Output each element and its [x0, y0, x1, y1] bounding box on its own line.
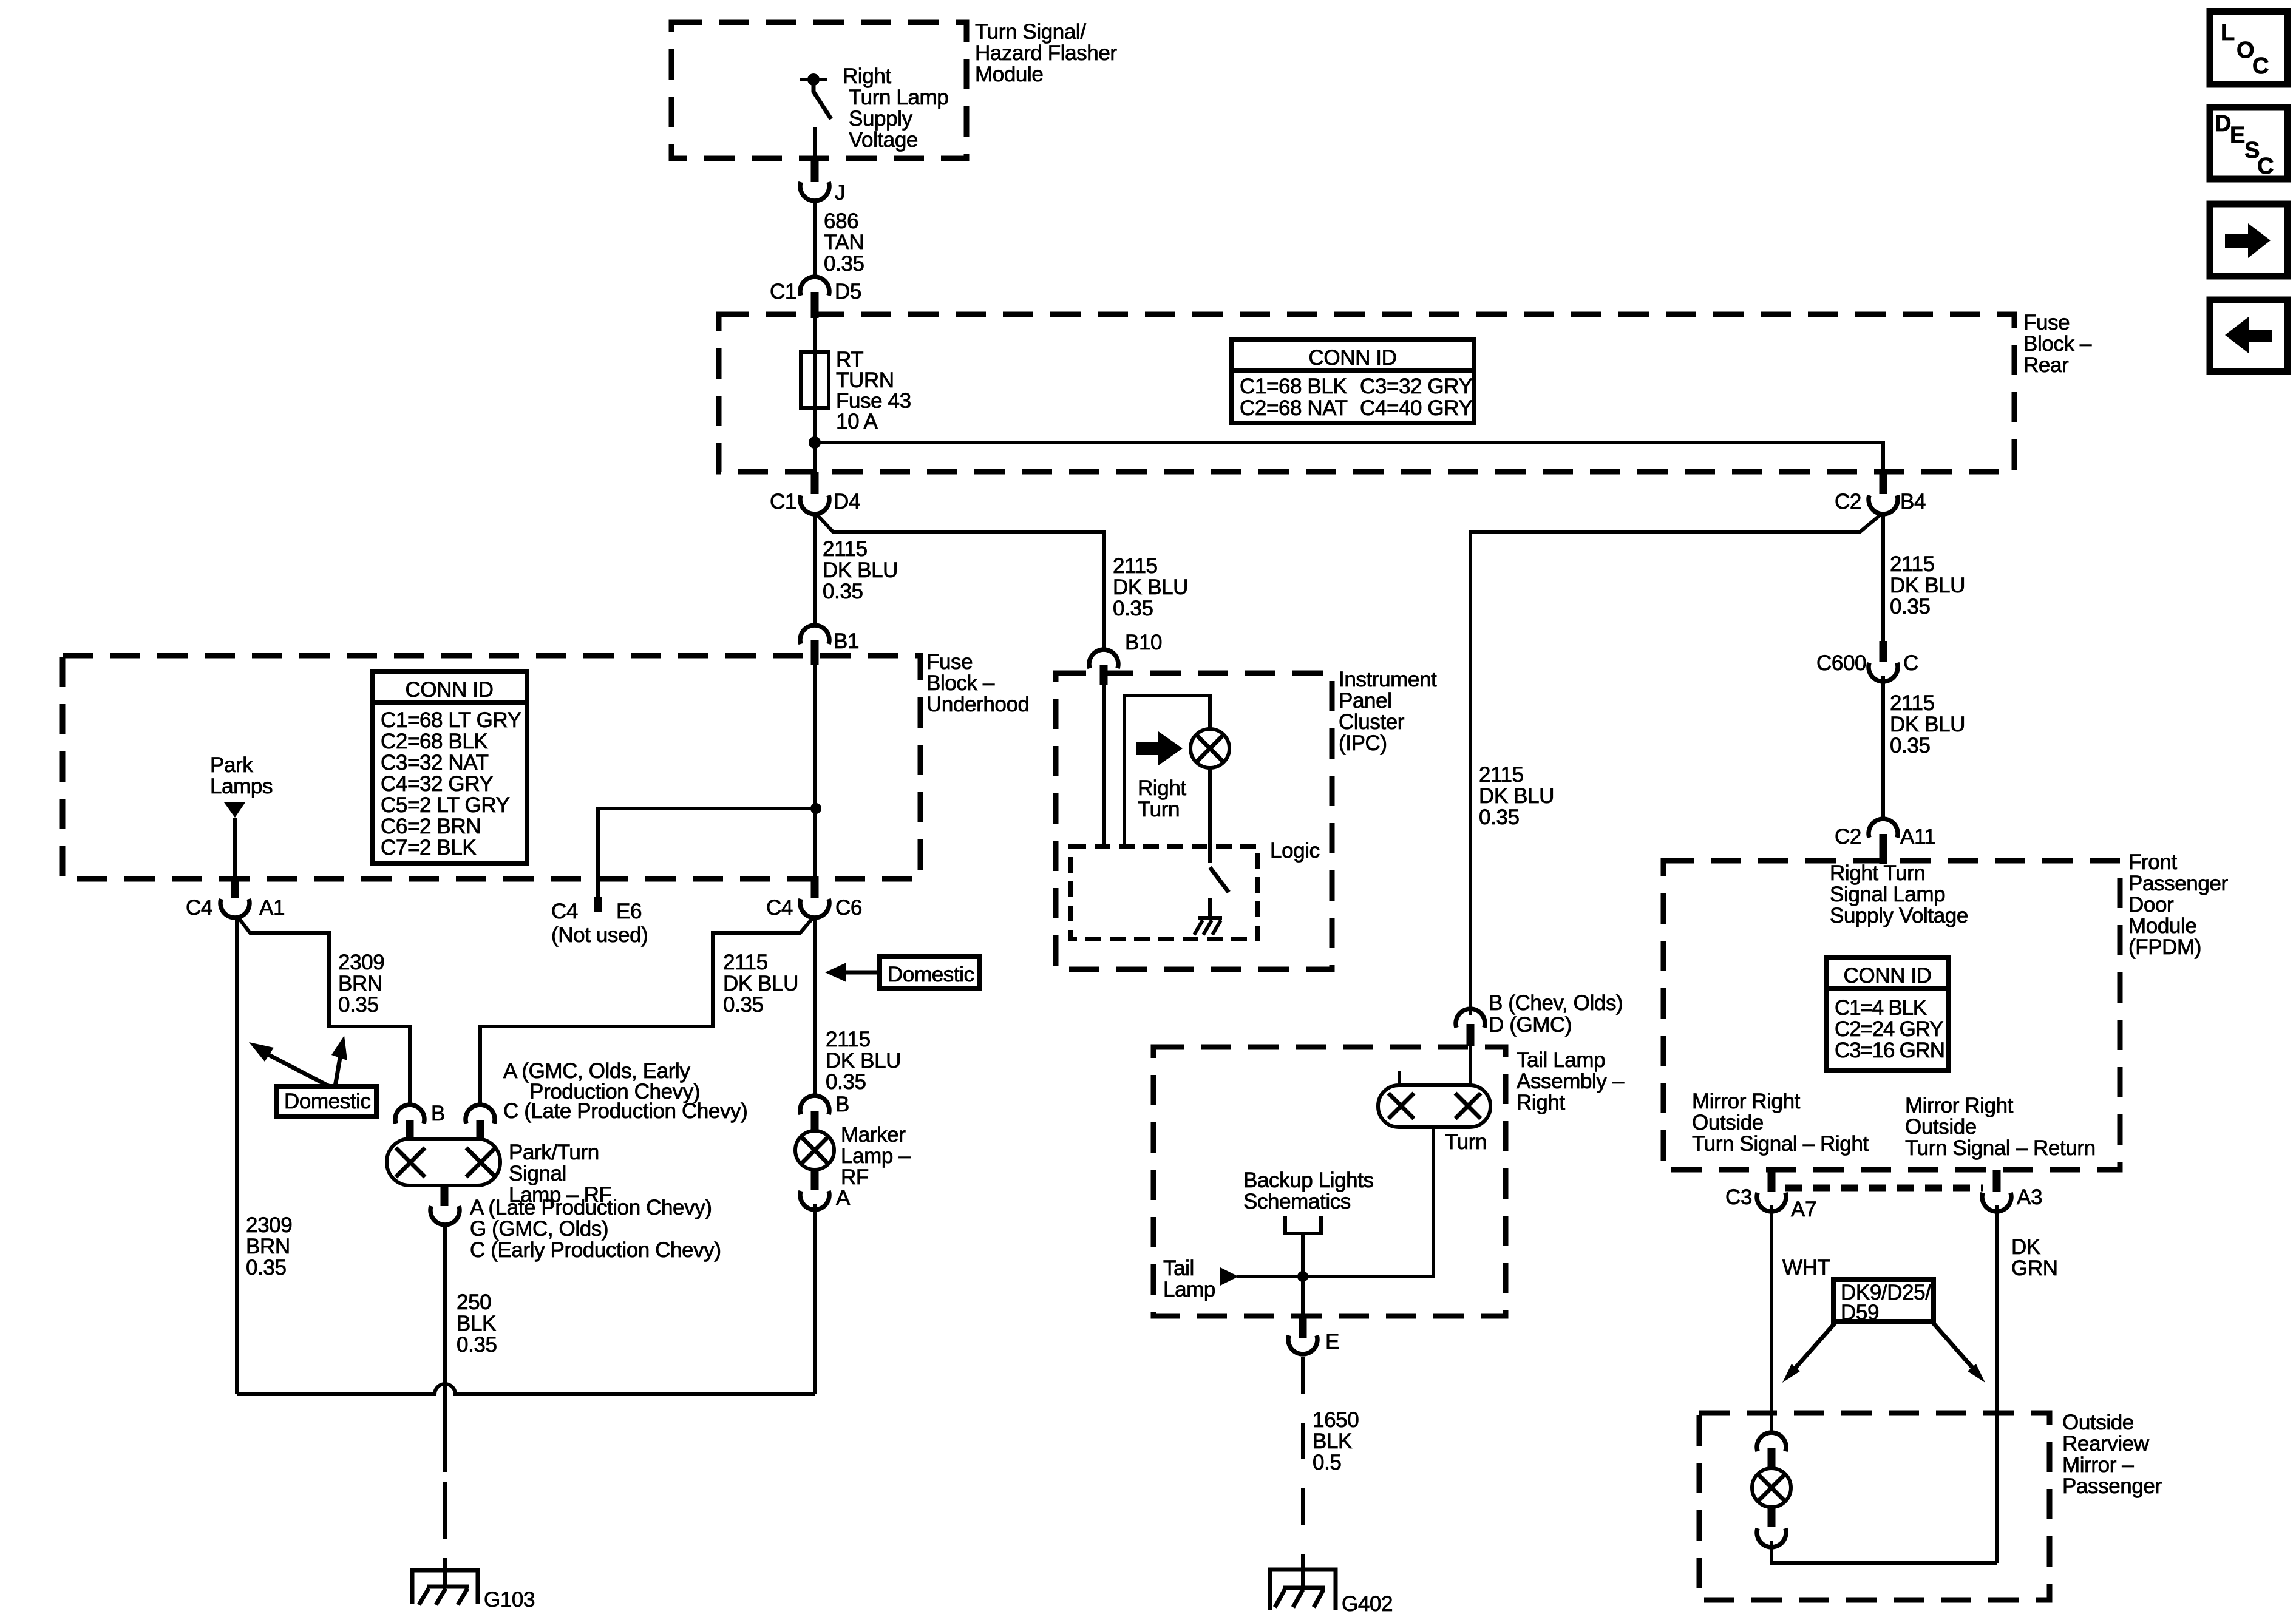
wire: C2 B4 to tail-lamp branch: [1470, 514, 1882, 1015]
connector C4 A1: [186, 876, 285, 920]
wire: branch to IPC B10: [816, 514, 1188, 650]
svg-text:Right Turn: Right Turn: [1830, 861, 1925, 885]
svg-text:Park: Park: [210, 753, 253, 777]
svg-text:GRN: GRN: [2011, 1256, 2058, 1280]
wire: connector face dashes: [1785, 1185, 1983, 1192]
svg-text:Turn Signal/: Turn Signal/: [975, 20, 1086, 44]
svg-text:Turn: Turn: [1445, 1130, 1487, 1154]
svg-text:A11: A11: [1900, 825, 1935, 849]
svg-text:C1: C1: [770, 280, 796, 303]
module box: Turn Signal / Hazard Flasher Module: [671, 20, 1117, 158]
svg-text:G (GMC, Olds): G (GMC, Olds): [470, 1217, 608, 1241]
svg-text:C1=4 BLK: C1=4 BLK: [1835, 996, 1927, 1020]
svg-text:0.35: 0.35: [1479, 805, 1520, 829]
svg-text:C2: C2: [1835, 490, 1861, 514]
pin label: Right Turn Signal Lamp Supply Voltage: [1830, 861, 1968, 927]
svg-text:DK BLU: DK BLU: [1113, 575, 1188, 599]
callout: Domestic (left): [249, 1036, 376, 1116]
svg-text:C1=68 LT GRY: C1=68 LT GRY: [381, 708, 521, 732]
svg-text:C4=40 GRY: C4=40 GRY: [1360, 396, 1473, 420]
svg-text:2115: 2115: [1479, 763, 1524, 787]
svg-text:Outside: Outside: [1692, 1111, 1764, 1134]
connector C600 C: [1816, 641, 1918, 682]
svg-text:Fuse: Fuse: [2023, 311, 2070, 334]
node: Tail Lamp feed: [1163, 1256, 1238, 1301]
svg-text:C1: C1: [770, 490, 796, 514]
connector C2 A11: [1835, 819, 1935, 864]
box: Logic: [1070, 839, 1320, 939]
svg-text:2115: 2115: [723, 951, 768, 974]
icon: LOC button: [2210, 12, 2288, 84]
wire WHT: [1771, 1205, 1830, 1433]
callout: DK9/D25/D59: [1782, 1280, 1985, 1383]
wire 2115 DK BLU 0.35 (C600 to FPDM): [1883, 676, 1965, 819]
ground (IPC internal): [1194, 898, 1222, 935]
svg-text:Turn Signal – Right: Turn Signal – Right: [1692, 1132, 1869, 1156]
switch: Right Turn Lamp Supply Voltage: [800, 64, 948, 152]
svg-text:E: E: [1325, 1330, 1339, 1354]
wire: through fuse: [813, 318, 817, 474]
connector C1 D5: [770, 277, 861, 318]
svg-text:2309: 2309: [246, 1213, 292, 1237]
svg-text:250: 250: [457, 1290, 491, 1314]
svg-text:Voltage: Voltage: [849, 128, 918, 152]
icon: back arrow button: [2210, 300, 2288, 371]
svg-text:Turn Signal – Return: Turn Signal – Return: [1905, 1136, 2096, 1160]
svg-text:Backup Lights: Backup Lights: [1243, 1168, 1374, 1192]
lamp: mirror turn signal bulb: [1752, 1468, 1791, 1507]
svg-text:D5: D5: [835, 280, 861, 303]
svg-text:0.35: 0.35: [824, 252, 864, 276]
svg-text:Rear: Rear: [2023, 353, 2069, 377]
connector B10: [1089, 631, 1162, 685]
svg-text:Module: Module: [2128, 914, 2196, 938]
pin label: Mirror Right Outside Turn Signal - Return: [1905, 1094, 2096, 1160]
connector B (park/turn lamp): [395, 1102, 445, 1140]
svg-text:0.35: 0.35: [1113, 597, 1153, 620]
connector B (marker lamp): [800, 1093, 849, 1131]
svg-text:2115: 2115: [1890, 552, 1935, 576]
connector (mirror bulb bottom): [1757, 1507, 1786, 1547]
svg-text:0.35: 0.35: [338, 993, 379, 1017]
connector C1 D4: [770, 472, 860, 514]
connector B/D (tail lamp): [1456, 991, 1623, 1046]
svg-text:C600: C600: [1816, 651, 1866, 675]
svg-text:Signal Lamp: Signal Lamp: [1830, 883, 1945, 906]
svg-text:C2=68 NAT: C2=68 NAT: [1240, 396, 1348, 420]
svg-text:CONN ID: CONN ID: [1309, 346, 1397, 370]
svg-text:Signal: Signal: [509, 1162, 566, 1185]
wire 2115 DK BLU 0.35 (to tail lamp): [1479, 763, 1554, 829]
svg-text:2309: 2309: [338, 951, 384, 974]
svg-text:C (Late Production Chevy): C (Late Production Chevy): [503, 1099, 747, 1123]
connector E: [1288, 1316, 1339, 1354]
svg-text:686: 686: [824, 209, 858, 233]
connector C4 C6: [766, 876, 862, 920]
svg-text:A: A: [836, 1186, 851, 1210]
svg-text:C2=24 GRY: C2=24 GRY: [1835, 1017, 1943, 1041]
svg-text:C3=32 GRY: C3=32 GRY: [1360, 375, 1473, 398]
svg-text:(IPC): (IPC): [1339, 731, 1387, 755]
svg-text:C7=2 BLK: C7=2 BLK: [381, 836, 476, 859]
svg-text:0.35: 0.35: [826, 1070, 866, 1094]
svg-text:D: D: [2215, 111, 2231, 137]
svg-text:Mirror –: Mirror –: [2062, 1453, 2134, 1477]
svg-text:Supply: Supply: [849, 107, 913, 131]
svg-text:Front: Front: [2128, 850, 2177, 874]
svg-text:CONN ID: CONN ID: [406, 678, 494, 702]
wire: flasher output to connector J: [813, 127, 817, 159]
svg-text:Passenger: Passenger: [2128, 872, 2228, 895]
svg-text:Mirror Right: Mirror Right: [1692, 1090, 1801, 1113]
svg-text:C4=32 GRY: C4=32 GRY: [381, 772, 494, 796]
svg-text:Underhood: Underhood: [926, 693, 1030, 716]
svg-text:Schematics: Schematics: [1243, 1190, 1351, 1213]
module box: Fuse Block - Underhood: [63, 650, 1030, 879]
junction node: tail lamp ground: [1297, 1271, 1308, 1282]
module box: Fuse Block - Rear: [719, 311, 2092, 472]
svg-text:Right: Right: [1138, 776, 1186, 800]
svg-text:DK BLU: DK BLU: [723, 972, 798, 995]
svg-text:A3: A3: [2017, 1185, 2042, 1209]
svg-text:Right: Right: [1517, 1091, 1565, 1114]
svg-text:Mirror Right: Mirror Right: [1905, 1094, 2014, 1117]
svg-text:2115: 2115: [1113, 554, 1158, 578]
svg-text:Tail Lamp: Tail Lamp: [1517, 1048, 1605, 1072]
svg-text:BRN: BRN: [246, 1235, 290, 1258]
svg-text:BLK: BLK: [1313, 1429, 1352, 1453]
svg-text:B (Chev, Olds): B (Chev, Olds): [1489, 991, 1623, 1015]
wire: main feed through underhood box: [813, 665, 817, 876]
wire 2115 DK BLU 0.35 (C6 to marker lamp): [815, 917, 901, 1096]
svg-text:Outside: Outside: [2062, 1411, 2134, 1434]
ground G402: [1270, 1554, 1393, 1616]
svg-text:DK BLU: DK BLU: [823, 558, 898, 582]
wire 2115 DK BLU 0.35 (below C2 B4): [1883, 513, 1965, 641]
lamp: Park/Turn Signal Lamp - RF: [387, 1139, 612, 1207]
svg-text:O: O: [2237, 38, 2254, 63]
svg-text:0.35: 0.35: [1890, 734, 1931, 758]
svg-text:B4: B4: [1900, 490, 1926, 514]
svg-text:Outside: Outside: [1905, 1115, 1977, 1139]
connector A3: [1982, 1170, 2042, 1212]
wire 2115 DK BLU 0.35 (C6 to lamp C): [480, 917, 813, 1105]
svg-text:DK BLU: DK BLU: [1890, 574, 1965, 597]
svg-text:Hazard Flasher: Hazard Flasher: [975, 41, 1117, 65]
svg-text:Block –: Block –: [2023, 332, 2092, 356]
connector B1: [800, 625, 859, 665]
wire 2309 BRN 0.35 (A1 long drop): [237, 917, 292, 1394]
svg-text:Instrument: Instrument: [1339, 668, 1437, 691]
wire: fuse output to C2 B4 (in-box horizontal): [815, 442, 1883, 474]
svg-text:C3: C3: [1725, 1185, 1752, 1209]
svg-text:Tail: Tail: [1163, 1256, 1194, 1280]
svg-text:Block –: Block –: [926, 671, 995, 695]
node: Park Lamps feed: [210, 753, 273, 876]
svg-text:0.35: 0.35: [457, 1333, 497, 1357]
fuse RT TURN Fuse 43 10 A: [801, 348, 911, 433]
table CONN ID (underhood): [372, 671, 527, 864]
svg-text:DK: DK: [2011, 1235, 2040, 1259]
svg-text:Panel: Panel: [1339, 689, 1392, 713]
ground G103: [412, 1570, 535, 1612]
svg-text:C2=68 BLK: C2=68 BLK: [381, 730, 487, 753]
svg-text:G103: G103: [484, 1588, 535, 1612]
svg-text:0.35: 0.35: [1890, 595, 1931, 619]
svg-text:Lamps: Lamps: [210, 775, 273, 798]
svg-text:C3=32 NAT: C3=32 NAT: [381, 751, 489, 775]
svg-text:Passenger: Passenger: [2062, 1474, 2162, 1498]
svg-text:Cluster: Cluster: [1339, 710, 1405, 734]
svg-text:D4: D4: [834, 490, 860, 514]
wire: to G103: [443, 1394, 447, 1587]
svg-text:E6: E6: [616, 900, 642, 923]
svg-text:Park/Turn: Park/Turn: [509, 1141, 599, 1164]
connector C3 A7: [1725, 1170, 1816, 1221]
svg-text:DK BLU: DK BLU: [826, 1049, 901, 1073]
svg-text:Lamp –: Lamp –: [841, 1144, 911, 1168]
svg-text:Module: Module: [975, 63, 1043, 86]
svg-text:Lamp: Lamp: [1163, 1278, 1215, 1301]
svg-text:CONN ID: CONN ID: [1844, 964, 1932, 988]
svg-text:B10: B10: [1125, 631, 1162, 654]
svg-text:B: B: [431, 1102, 445, 1125]
svg-text:2115: 2115: [823, 537, 868, 561]
wire: B10 into IPC: [1102, 685, 1106, 846]
icon: right turn arrow: [1136, 731, 1183, 765]
svg-text:A7: A7: [1791, 1198, 1816, 1221]
wire 1650 BLK 0.5: [1303, 1357, 1359, 1570]
pin label: Mirror Right Outside Turn Signal - Right: [1692, 1090, 1869, 1156]
connector C (park/turn lamp): [466, 1105, 495, 1140]
icon: forward arrow button: [2210, 204, 2288, 276]
svg-text:C1=68 BLK: C1=68 BLK: [1240, 375, 1347, 398]
wire: junction to connector E: [1301, 1276, 1305, 1318]
svg-text:G402: G402: [1342, 1592, 1393, 1616]
svg-text:BLK: BLK: [457, 1312, 496, 1335]
connector (mirror bulb top): [1757, 1432, 1786, 1469]
svg-text:J: J: [835, 181, 845, 205]
pin labels park/turn top: [503, 1059, 747, 1123]
wire DK GRN: [1997, 1205, 2058, 1563]
module box: Outside Rearview Mirror - Passenger: [1699, 1411, 2162, 1600]
switch: logic driver: [1210, 867, 1229, 892]
svg-text:0.35: 0.35: [723, 993, 764, 1017]
icon: DESC button: [2210, 107, 2288, 179]
svg-text:C4: C4: [551, 900, 578, 923]
wire: marker lamp to ground bus: [813, 1204, 817, 1394]
svg-text:A1: A1: [259, 896, 285, 920]
svg-text:C: C: [1903, 651, 1918, 675]
junction node: fuse output: [809, 436, 821, 449]
svg-text:Domestic: Domestic: [284, 1090, 371, 1113]
wire 686 TAN 0.35: [815, 200, 864, 276]
wire: IPC internal loop to indicator: [1124, 696, 1210, 846]
svg-text:C: C: [2252, 53, 2269, 79]
svg-text:C6=2 BRN: C6=2 BRN: [381, 815, 481, 838]
lamp: Marker Lamp - RF: [795, 1123, 911, 1189]
svg-text:D59: D59: [1841, 1301, 1879, 1324]
svg-text:E: E: [2230, 123, 2245, 148]
svg-text:2115: 2115: [826, 1028, 871, 1051]
svg-text:Turn Lamp: Turn Lamp: [849, 86, 948, 109]
svg-text:Door: Door: [2128, 893, 2174, 917]
svg-text:0.35: 0.35: [823, 580, 863, 603]
svg-text:Right: Right: [843, 64, 891, 88]
svg-text:Marker: Marker: [841, 1123, 906, 1147]
wire: indicator to logic switch: [1208, 768, 1212, 863]
connector A (park/turn bottom): [430, 1185, 721, 1262]
svg-text:D (GMC): D (GMC): [1489, 1013, 1572, 1037]
svg-text:Assembly –: Assembly –: [1517, 1070, 1625, 1093]
svg-text:C (Early Production Chevy): C (Early Production Chevy): [470, 1238, 721, 1262]
wire 2309 BRN 0.35 (A1 to lamp B): [238, 917, 410, 1105]
connector J: [800, 159, 845, 205]
callout: Domestic (right): [825, 957, 979, 989]
wire: E6 stub: [551, 803, 821, 947]
module box: Instrument Panel Cluster (IPC): [1056, 668, 1437, 969]
wire: ground bus: [237, 1384, 815, 1394]
svg-text:L: L: [2221, 20, 2235, 46]
svg-text:WHT: WHT: [1782, 1256, 1830, 1280]
svg-text:C4: C4: [186, 896, 212, 920]
connector C2 B4: [1835, 472, 1926, 514]
svg-text:1650: 1650: [1313, 1408, 1359, 1432]
svg-text:C4: C4: [766, 896, 793, 920]
svg-text:0.5: 0.5: [1313, 1451, 1341, 1474]
svg-text:DK BLU: DK BLU: [1890, 713, 1965, 736]
svg-text:10 A: 10 A: [836, 410, 878, 433]
svg-text:BRN: BRN: [338, 972, 382, 995]
svg-text:C3=16 GRN: C3=16 GRN: [1835, 1039, 1944, 1062]
svg-text:A (Late Production Chevy): A (Late Production Chevy): [470, 1196, 712, 1219]
svg-text:(Not used): (Not used): [551, 923, 648, 947]
wire 250 BLK 0.35: [445, 1224, 497, 1394]
svg-text:0.35: 0.35: [246, 1256, 287, 1280]
svg-text:Logic: Logic: [1270, 839, 1320, 863]
wire: mirror return path: [1771, 1541, 1997, 1563]
module box: Tail Lamp Assembly - Right: [1153, 1047, 1625, 1316]
svg-text:Rearview: Rearview: [2062, 1432, 2150, 1456]
connector A (marker lamp): [800, 1170, 851, 1210]
svg-text:TAN: TAN: [824, 231, 864, 254]
svg-text:C5=2 LT GRY: C5=2 LT GRY: [381, 793, 510, 817]
node: Backup Lights Schematics: [1243, 1168, 1374, 1276]
svg-text:C: C: [2257, 154, 2274, 179]
wire 2115 DK BLU 0.35 (below C1 D4): [815, 513, 898, 626]
table CONN ID (fuse block rear): [1232, 340, 1474, 423]
svg-text:2115: 2115: [1890, 691, 1935, 715]
table CONN ID (FPDM): [1827, 958, 1948, 1071]
wire: B/D into tail lamp: [1469, 1046, 1472, 1085]
svg-text:(FPDM): (FPDM): [2128, 935, 2201, 959]
svg-text:Fuse: Fuse: [926, 650, 973, 674]
svg-text:C6: C6: [835, 896, 862, 920]
svg-text:C2: C2: [1835, 825, 1861, 849]
svg-text:Supply Voltage: Supply Voltage: [1830, 904, 1968, 927]
svg-text:B1: B1: [834, 629, 859, 653]
svg-text:DK BLU: DK BLU: [1479, 784, 1554, 808]
wire: stub into tail lamp (left pin): [1398, 1071, 1401, 1085]
wire: tail lamp to junction: [1237, 1127, 1433, 1276]
module box: Front Passenger Door Module (FPDM): [1663, 850, 2228, 1170]
svg-text:Turn: Turn: [1138, 798, 1180, 821]
lamp: tail lamp Turn element: [1378, 1085, 1490, 1154]
lamp: Right Turn indicator: [1138, 729, 1229, 821]
svg-text:Domestic: Domestic: [888, 963, 974, 986]
svg-text:B: B: [835, 1093, 849, 1116]
